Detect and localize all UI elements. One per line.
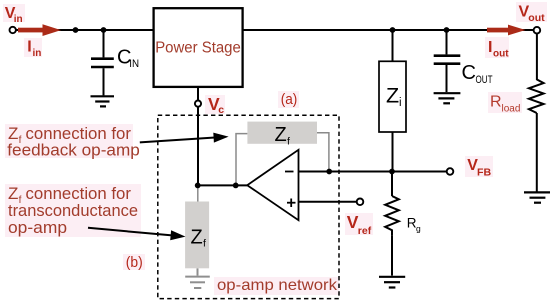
svg-text:out: out — [493, 49, 509, 60]
svg-text:Z: Z — [275, 124, 287, 146]
svg-text:in: in — [33, 48, 42, 59]
svg-text:i: i — [399, 97, 402, 109]
svg-text:in: in — [14, 14, 23, 25]
svg-text:g: g — [416, 224, 421, 234]
svg-text:R: R — [490, 94, 502, 111]
svg-text:out: out — [528, 13, 545, 24]
svg-text:Z: Z — [386, 83, 399, 107]
svg-text:load: load — [502, 104, 521, 115]
svg-text:feedback op-amp: feedback op-amp — [7, 141, 140, 160]
svg-text:I: I — [27, 39, 31, 56]
svg-text:OUT: OUT — [476, 74, 493, 86]
svg-text:Power Stage: Power Stage — [155, 40, 241, 57]
svg-text:f: f — [203, 238, 206, 250]
svg-text:transconductance: transconductance — [8, 201, 138, 220]
svg-text:FB: FB — [477, 167, 491, 178]
svg-text:op-amp network: op-amp network — [217, 277, 338, 294]
svg-text:I: I — [488, 39, 492, 56]
svg-text:op-amp: op-amp — [8, 218, 67, 237]
svg-text:IN: IN — [129, 58, 139, 70]
svg-text:(a): (a) — [281, 91, 298, 108]
svg-text:ref: ref — [358, 225, 372, 237]
svg-text:f: f — [287, 135, 290, 147]
svg-text:C: C — [462, 62, 476, 84]
svg-text:(b): (b) — [126, 254, 143, 271]
svg-text:c: c — [218, 104, 224, 116]
svg-text:Z: Z — [191, 226, 203, 248]
